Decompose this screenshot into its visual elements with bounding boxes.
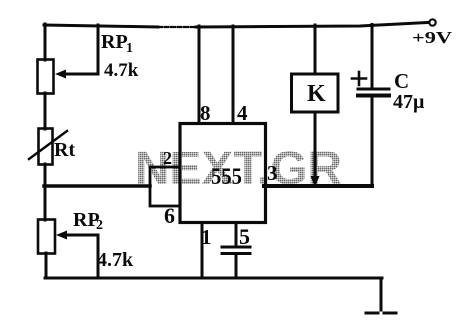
svg-text:4.7k: 4.7k <box>97 249 134 271</box>
svg-text:2: 2 <box>96 218 103 233</box>
svg-text:555: 555 <box>211 164 242 189</box>
svg-text:RP: RP <box>101 31 128 53</box>
svg-text:C: C <box>394 69 409 93</box>
svg-text:6: 6 <box>164 203 175 228</box>
svg-text:47μ: 47μ <box>393 91 425 113</box>
svg-text:1: 1 <box>201 225 212 249</box>
svg-text:4: 4 <box>237 101 248 125</box>
svg-text:8: 8 <box>200 101 211 125</box>
svg-text:Rt: Rt <box>54 139 75 161</box>
svg-text:+9V: +9V <box>412 28 453 47</box>
svg-text:5: 5 <box>239 224 250 249</box>
svg-text:1: 1 <box>126 41 133 56</box>
svg-text:K: K <box>307 81 326 107</box>
svg-text:2: 2 <box>163 148 172 168</box>
svg-text:4.7k: 4.7k <box>104 60 139 81</box>
svg-text:3: 3 <box>267 161 278 185</box>
